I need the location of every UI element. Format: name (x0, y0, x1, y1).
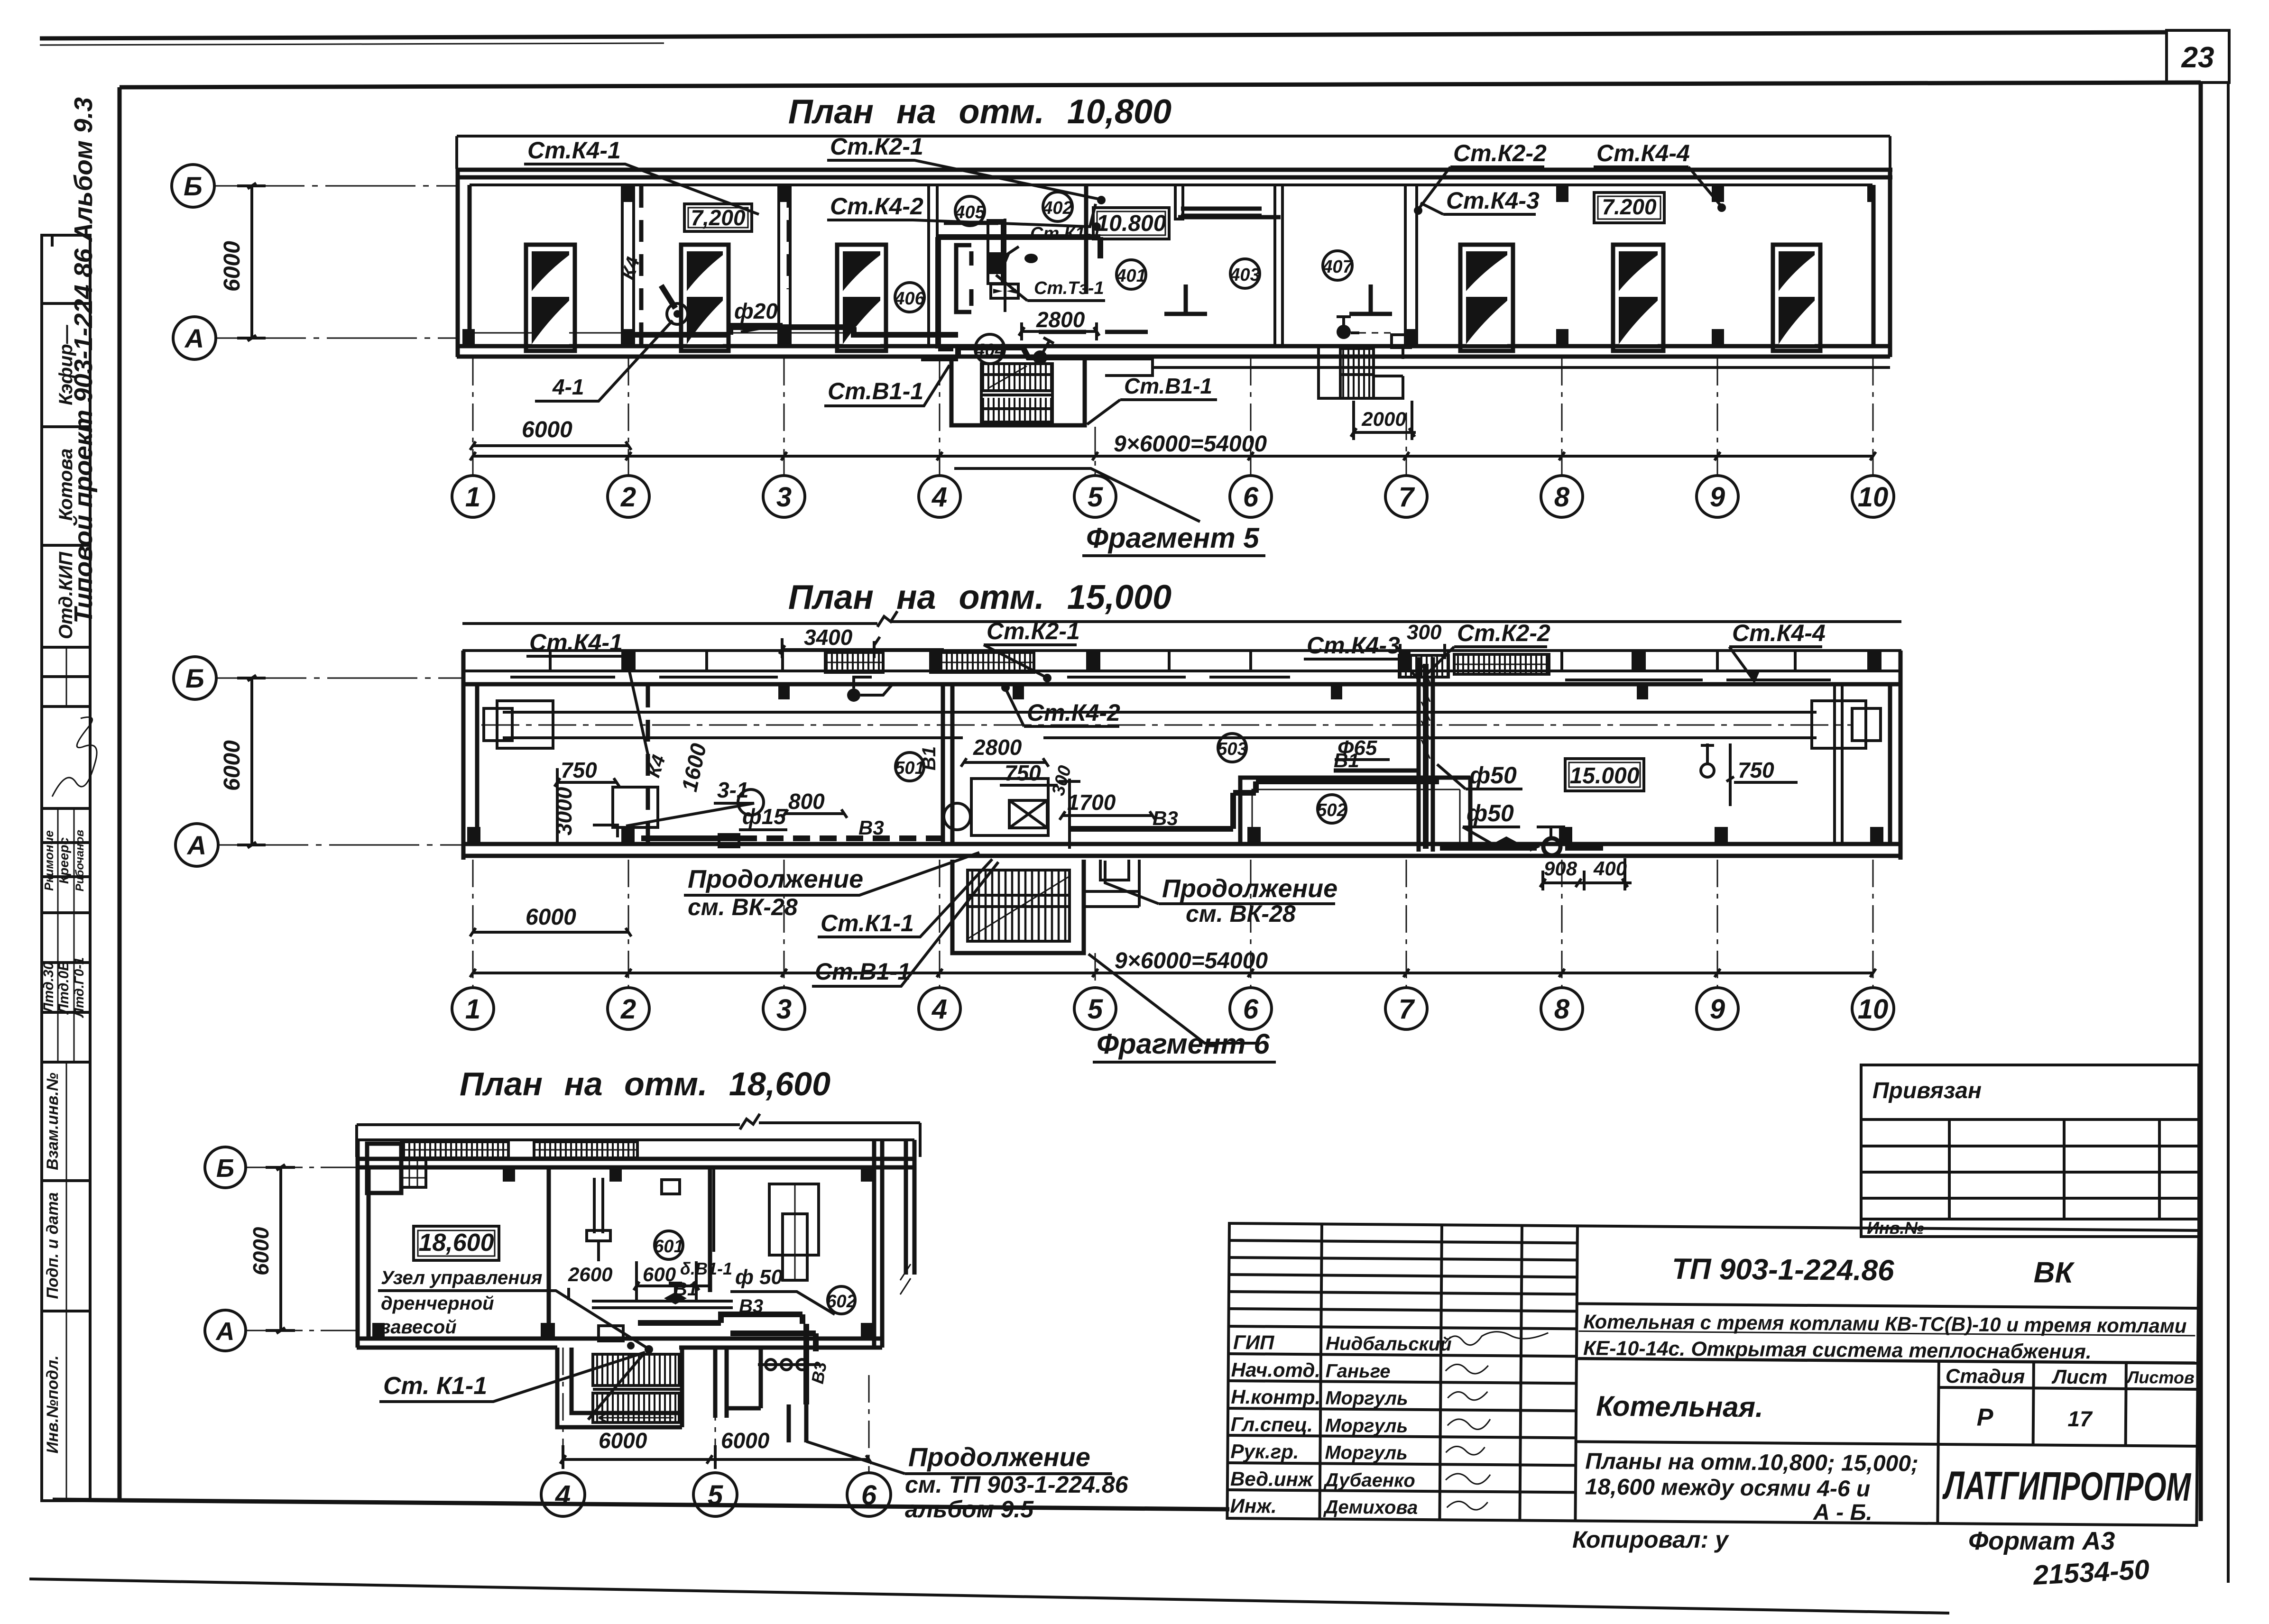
svg-text:400: 400 (1593, 857, 1627, 880)
svg-text:Продолжение: Продолжение (688, 865, 863, 893)
svg-text:ф 50: ф 50 (735, 1266, 783, 1289)
svg-text:Нидбальский: Нидбальский (1326, 1333, 1452, 1355)
svg-text:Ст.К2-1: Ст.К2-1 (830, 133, 923, 160)
sidebar sub column lines (58, 647, 74, 1501)
svg-text:401: 401 (1116, 266, 1146, 286)
svg-text:ф20: ф20 (734, 299, 778, 323)
svg-text:1700: 1700 (1067, 790, 1116, 815)
plan1 riser block (988, 252, 1002, 274)
plan2 axis B circle (174, 657, 216, 699)
title block column lines left table (1319, 1224, 1522, 1520)
svg-text:Инв.№подл.: Инв.№подл. (44, 1355, 62, 1453)
plan1 axis drop lines (473, 358, 1873, 476)
plan2 dim 1700 (1060, 790, 1155, 820)
plan1 partition between 405 and 402 (1004, 219, 1006, 312)
plan2 monorail center dash (481, 725, 1852, 726)
plan1 vent box with arrows (991, 284, 1018, 298)
svg-text:6000: 6000 (526, 905, 576, 930)
plan1 lower roof band line (1153, 366, 1890, 369)
plan1 right small stair (1319, 317, 1411, 398)
plan1 label St.V1-1 right (1087, 374, 1217, 424)
svg-text:2800: 2800 (973, 735, 1022, 760)
plan2 grate hatch 2 (931, 652, 1034, 672)
svg-text:7: 7 (1399, 482, 1415, 513)
svg-text:6: 6 (1243, 482, 1259, 513)
svg-text:Планы на отм.10,800; 15,000;: Планы на отм.10,800; 15,000; (1585, 1449, 1919, 1477)
svg-text:Узел управления: Узел управления (381, 1267, 542, 1288)
svg-text:Ганьге: Ганьге (1326, 1360, 1391, 1382)
plan1 room number 406 (894, 283, 925, 312)
plan3 stair hatch lower (593, 1389, 682, 1422)
plan1 room404 inner C shape (956, 245, 971, 312)
svg-text:Типовой проект 903-1-224 86 Ал: Типовой проект 903-1-224 86 Альбом 9.3 (69, 97, 98, 624)
svg-text:Ст.Тз-1: Ст.Тз-1 (1034, 278, 1104, 298)
svg-text:4: 4 (932, 482, 947, 513)
svg-text:Ст.К4-4: Ст.К4-4 (1732, 620, 1826, 646)
plan1 dim 2800 (1019, 307, 1099, 340)
svg-text:План на отм. 10,800: План на отм. 10,800 (788, 93, 1171, 131)
plan1 small shelf lines room 405 (944, 209, 1262, 223)
plan2 axis A line (218, 844, 463, 846)
plan2 top wall inner (462, 682, 1901, 687)
svg-text:1: 1 (465, 994, 480, 1025)
svg-text:9×6000=54000: 9×6000=54000 (1115, 948, 1268, 973)
plan2 grate hatch 4 (1454, 654, 1549, 674)
plan1 partition 403/407 (1275, 185, 1282, 346)
plan2 dim 750 left (554, 758, 619, 787)
plan1 stairwell hatch (981, 364, 1052, 422)
svg-text:600: 600 (643, 1263, 676, 1285)
plan2 label St.K4-2 (1001, 683, 1120, 726)
plan2 monorail left bracket (484, 701, 553, 748)
plan3 partition 2 (708, 1167, 712, 1292)
svg-text:δ.В1-1: δ.В1-1 (680, 1259, 732, 1278)
svg-text:4-1: 4-1 (552, 375, 584, 399)
plan2 grate hatch 3 (1399, 655, 1448, 677)
svg-text:Ст.К4-2: Ст.К4-2 (830, 193, 923, 220)
svg-text:Листов: Листов (2126, 1367, 2195, 1387)
svg-text:Б: Б (185, 663, 204, 693)
plan3 vert dim 6000 (249, 1165, 295, 1333)
plan3 level box 18,600 (414, 1226, 499, 1260)
svg-text:5: 5 (708, 1480, 723, 1511)
title block thin rows left (1229, 1240, 1577, 1311)
plan3 rod vertical (587, 1178, 610, 1261)
privyazan grid v lines (1949, 1119, 2159, 1219)
svg-text:Ст.К4-2: Ст.К4-2 (1027, 699, 1120, 726)
plan1 window 3 (837, 245, 886, 351)
plan3 equipment box top-left (367, 1144, 426, 1193)
plan2 label f50 upper (1437, 762, 1522, 789)
svg-text:Вед.инж: Вед.инж (1230, 1468, 1314, 1490)
title block bottom divider (1576, 1441, 2197, 1446)
svg-text:Н.контр.: Н.контр. (1231, 1385, 1320, 1408)
plan2 top chord line with break (462, 611, 1901, 627)
plan2 label St.K4-4 (1729, 620, 1826, 683)
plan3 dims 6000 6000 (560, 1428, 872, 1469)
svg-text:А: А (215, 1317, 235, 1346)
svg-text:В3: В3 (1153, 807, 1178, 829)
title block stadia table (1937, 1361, 2197, 1525)
plan3 label continuation (806, 1441, 1129, 1523)
plan2 label continuation left (684, 853, 979, 920)
svg-text:2: 2 (620, 994, 636, 1025)
svg-text:2800: 2800 (1036, 307, 1085, 332)
plan1 window 1 (526, 245, 575, 351)
plan1 footing T marks (1164, 284, 1392, 314)
plan3 axis A circle (205, 1310, 246, 1351)
svg-text:Ст.К1-1: Ст.К1-1 (1030, 224, 1101, 244)
plan1 dim 6000 (470, 417, 631, 450)
svg-text:Лист: Лист (2051, 1366, 2108, 1388)
plan1 partition axis3 (779, 185, 790, 346)
svg-text:10: 10 (1858, 994, 1889, 1025)
plan3 heavy pipe V3 (638, 1314, 816, 1404)
plan3 grid circle 4 (541, 1473, 585, 1516)
plan1 room number 402 (1042, 192, 1072, 221)
plan2 valve right (1701, 743, 1714, 777)
plan1 level box 7.200 right (1594, 193, 1664, 223)
plan1 level box 10.800 (1093, 208, 1169, 239)
plan3 axis B circle (205, 1147, 246, 1188)
plan1 dim 2000 (1351, 401, 1416, 440)
svg-text:406: 406 (894, 289, 925, 309)
plan2 riser shaft axis7 (1419, 657, 1433, 852)
svg-text:Ст.К2-2: Ст.К2-2 (1457, 620, 1550, 646)
plan2 label continuation right (1105, 861, 1337, 927)
svg-text:Ст.К4-1: Ст.К4-1 (529, 629, 623, 656)
plan2 dim 6000 (470, 905, 631, 936)
plan3 vent shaft (769, 1184, 819, 1280)
svg-text:6000: 6000 (599, 1428, 647, 1453)
svg-text:В3: В3 (858, 817, 884, 839)
svg-text:В1: В1 (919, 746, 940, 771)
plan1 bottom heavy pipe B1 (621, 327, 1153, 358)
plan2 riser K4 vertical fill (1421, 664, 1430, 759)
lower margin line (29, 1579, 1949, 1613)
svg-text:403: 403 (1229, 265, 1260, 285)
plan2 vert dim 6000 (220, 675, 266, 848)
plan3 pipe B1 pair (592, 1301, 733, 1308)
plan2 level box 15.000 (1565, 759, 1644, 791)
svg-text:ф50: ф50 (1467, 800, 1514, 826)
svg-text:602: 602 (826, 1292, 856, 1312)
plan3 grid circle 6 (847, 1473, 891, 1516)
plan2 heavy pipe dashed V3 (740, 835, 943, 841)
svg-text:В3: В3 (739, 1296, 763, 1317)
svg-text:10.800: 10.800 (1097, 211, 1166, 236)
title block divider signature/main (1575, 1226, 1577, 1521)
plan1 partition axis2 (622, 185, 634, 346)
left margin strip (sidebar) (41, 97, 98, 1501)
plan2 tank 3-1 (613, 787, 658, 827)
svg-text:601: 601 (654, 1237, 683, 1257)
svg-text:Котельная.: Котельная. (1596, 1390, 1763, 1423)
plan1 right wall (1873, 169, 1890, 357)
svg-text:6000: 6000 (220, 241, 245, 292)
sheet number box (2167, 30, 2229, 83)
plan2 label F65 (1335, 736, 1390, 760)
plan3 bottom wall (357, 1339, 882, 1348)
plan1 fragment5 leader (954, 468, 1200, 522)
plan1 pipe valve dot (1033, 350, 1047, 365)
plan2 monorail beam (503, 712, 1817, 738)
plan2 label St.K4-1 (526, 629, 649, 759)
plan1 dim row 9x6000 (470, 431, 1876, 460)
svg-text:ТП 903-1-224.86: ТП 903-1-224.86 (1672, 1253, 1895, 1287)
svg-text:Гл.спец.: Гл.спец. (1231, 1413, 1313, 1436)
plan2 riser K4 dashed left (646, 686, 650, 843)
svg-text:Моргуль: Моргуль (1325, 1442, 1408, 1463)
privyazan grid h lines (1861, 1119, 2199, 1219)
svg-text:Ст.К1-1: Ст.К1-1 (821, 910, 914, 936)
plan2 right wall (1890, 651, 1900, 860)
plan1 axis A circle (173, 317, 216, 359)
svg-text:Продолжение: Продолжение (1162, 874, 1337, 903)
plan2 label St.V1-1 (812, 862, 998, 986)
plan1 grid circles 1-10 (452, 476, 1894, 517)
plan1 label St.K4-4 top (1594, 140, 1726, 212)
svg-text:Формат А3: Формат А3 (1968, 1527, 2115, 1555)
plan1 window 5 (1613, 245, 1663, 351)
plan1 dashed wall mark near 401 (1039, 330, 1148, 334)
svg-text:18,600 между осями 4-6 и: 18,600 между осями 4-6 и (1585, 1475, 1871, 1502)
svg-text:Подп. и дата: Подп. и дата (44, 1192, 62, 1299)
svg-text:А: А (184, 323, 204, 353)
plan2 fragment6 text (1093, 1028, 1276, 1062)
svg-text:6000: 6000 (220, 740, 245, 791)
svg-text:2000: 2000 (1361, 408, 1406, 430)
svg-text:Рибочанов: Рибочанов (74, 830, 86, 891)
svg-text:407: 407 (1322, 257, 1353, 277)
plan2 label St.K1-1 (818, 859, 992, 937)
plan2 dim 3400 (779, 625, 944, 658)
privyazan outer box (1861, 1065, 2199, 1237)
svg-text:2: 2 (620, 482, 636, 513)
svg-text:7.200: 7.200 (1602, 194, 1657, 219)
plan1 window sill inner line (470, 332, 920, 334)
plan3 grate hatch 2 (534, 1142, 637, 1158)
plan2 left wall (463, 651, 477, 860)
svg-text:Ст.В1-1: Ст.В1-1 (815, 958, 911, 985)
plan3 room number 602 (826, 1286, 856, 1314)
plan3 right wall (874, 1140, 882, 1348)
plan3 axis B line (246, 1167, 358, 1168)
svg-text:ф50: ф50 (1469, 762, 1517, 789)
svg-text:404: 404 (974, 340, 1005, 360)
plan3 drencher unit (599, 1326, 635, 1349)
svg-text:503: 503 (1217, 739, 1247, 759)
plan2 small valve at top (847, 677, 892, 702)
plan2 center partition (943, 684, 952, 844)
plan3 partition 1 (547, 1167, 551, 1330)
plan3 small square (662, 1180, 680, 1194)
svg-text:Демихова: Демихова (1323, 1496, 1418, 1518)
svg-text:5: 5 (1088, 994, 1103, 1025)
plan1 label St.V1-1 left (824, 365, 950, 406)
plan1 axis B line (214, 185, 457, 187)
svg-text:750: 750 (561, 758, 597, 782)
plan1 porch right of stairwell (1105, 358, 1153, 376)
plan2 rod with T (1059, 779, 1080, 849)
plan1 room number 404 (974, 334, 1005, 364)
frame top edge (120, 83, 2201, 87)
plan1 top wall inner line (470, 184, 1872, 186)
plan2 roof band (462, 651, 1901, 671)
svg-text:6000: 6000 (249, 1227, 273, 1275)
svg-text:9: 9 (1710, 994, 1725, 1025)
plan3 left wall (358, 1140, 369, 1348)
svg-text:3-1: 3-1 (717, 778, 748, 802)
svg-text:6000: 6000 (721, 1428, 770, 1453)
plan2 fragment6 leader (1088, 954, 1257, 1043)
plan3 room number 601 (654, 1231, 683, 1259)
plan1 partition 402/401 (1084, 185, 1088, 294)
plan3 pilasters (372, 1167, 874, 1339)
top margin line (40, 32, 2167, 38)
plan1 label St.K2-1 (827, 133, 1106, 204)
plan1 riser outline (988, 220, 1002, 284)
plan2 porch right (1084, 860, 1139, 907)
svg-text:Продолжение: Продолжение (908, 1442, 1090, 1472)
svg-text:6: 6 (1243, 994, 1259, 1025)
svg-text:2600: 2600 (568, 1263, 612, 1285)
svg-text:6: 6 (861, 1480, 877, 1511)
plan1 window 2 (681, 245, 729, 351)
plan1 partition 403 left (1175, 185, 1183, 219)
plan1 room number 407 (1322, 251, 1353, 280)
plan1 room number 405 (954, 196, 985, 226)
svg-text:17: 17 (2067, 1406, 2093, 1431)
plan1 partition axis7 (1405, 185, 1417, 346)
svg-text:5: 5 (1088, 482, 1103, 513)
svg-text:см. ТП 903-1-224.86: см. ТП 903-1-224.86 (905, 1471, 1129, 1498)
svg-text:План на отм. 18,600: План на отм. 18,600 (460, 1065, 830, 1102)
svg-text:Лтд.Г0-1: Лтд.Г0-1 (72, 957, 86, 1018)
plan1 window 4 (1460, 245, 1513, 351)
sidebar signature scribble (52, 717, 97, 797)
svg-text:Ст.К4-3: Ст.К4-3 (1307, 632, 1400, 659)
svg-text:Ст.К4-1: Ст.К4-1 (527, 137, 621, 164)
svg-text:1: 1 (465, 482, 480, 513)
plan2 label St.K2-1 (984, 618, 1080, 682)
plan2 dim 3000 rotated (552, 782, 576, 844)
svg-text:А - Б.: А - Б. (1813, 1500, 1872, 1525)
plan2 label 3-1 (626, 778, 754, 826)
plan2 roof band joints (550, 651, 1795, 671)
title block top header line (1577, 1303, 2198, 1308)
plan1 wall segment over 403 (1178, 215, 1281, 220)
svg-text:Стадия: Стадия (1946, 1365, 2025, 1387)
svg-text:План на отм. 15,000: План на отм. 15,000 (788, 578, 1171, 616)
svg-text:15.000: 15.000 (1570, 763, 1640, 789)
svg-text:Моргуль: Моргуль (1325, 1415, 1408, 1436)
plan1 fragment5 text (1082, 522, 1265, 556)
svg-text:Лтд.0В: Лтд.0В (56, 961, 72, 1015)
svg-text:см. ВК-28: см. ВК-28 (688, 894, 798, 920)
plan2 dim 800 (782, 789, 847, 818)
svg-text:Инв.№: Инв.№ (1867, 1218, 1924, 1238)
plan2 grid circles 1-10 (452, 988, 1894, 1029)
plan3 flange circles (758, 1359, 821, 1370)
svg-text:8: 8 (1554, 482, 1570, 513)
plan2 room 502 walls (1240, 778, 1470, 844)
svg-text:Лтд.30: Лтд.30 (41, 962, 56, 1013)
plan3 top chord line with break (357, 1114, 920, 1157)
svg-text:23: 23 (2181, 41, 2214, 74)
plan1 axis A line (216, 338, 457, 339)
svg-text:Б: Б (184, 171, 203, 201)
svg-text:дренчерной: дренчерной (381, 1293, 494, 1314)
plan2 pipe pair B1 right (1334, 771, 1419, 780)
svg-text:А: А (186, 830, 206, 860)
privyazan box (1861, 1065, 2199, 1238)
plan2 heavy pipe mid (1070, 781, 1439, 829)
plan1 room number 403 (1229, 259, 1260, 288)
plan2 grate hatch 1 (825, 652, 883, 672)
plan2 label St.K2-2 (1428, 620, 1550, 673)
svg-text:Дубаенко: Дубаенко (1323, 1469, 1415, 1491)
plan3 stair arrow (599, 1412, 673, 1423)
plan3 below duct (715, 1348, 761, 1418)
plan2 bottom wall (462, 844, 1901, 856)
plan2 roof band pads (621, 651, 1882, 671)
plan3 valve on B1 (664, 1283, 687, 1304)
svg-text:Ст.К2-1: Ст.К2-1 (987, 618, 1080, 644)
svg-text:Ф65: Ф65 (1337, 736, 1377, 760)
plan3 below pipes (789, 1404, 806, 1442)
plan2 heavy riser pipe (1423, 664, 1429, 849)
plan2 stairwell below (952, 860, 1084, 953)
plan2 room number 503 (1217, 734, 1247, 762)
plan2 dim row 9x6000 (470, 948, 1876, 977)
plan1 room number 401 (1116, 260, 1146, 289)
svg-text:Копировал: у: Копировал: у (1572, 1526, 1729, 1553)
plan3 top outer line (357, 1138, 914, 1141)
plan1 axis B circle (172, 165, 214, 207)
plan3 top wall (357, 1159, 914, 1167)
svg-text:ГИП: ГИП (1233, 1331, 1274, 1354)
svg-text:завесой: завесой (381, 1317, 457, 1338)
svg-text:300: 300 (1407, 621, 1442, 644)
title block mid divider (1577, 1358, 2198, 1363)
svg-text:Ст.К2-2: Ст.К2-2 (1453, 140, 1547, 166)
plan2 dim 2800 mid (961, 734, 1049, 767)
plan1 pipe valve stem (1040, 338, 1054, 358)
plan1 window 6 (1773, 245, 1820, 351)
svg-text:Ст. К1-1: Ст. К1-1 (383, 1372, 487, 1400)
plan3 far right bay wall with break (906, 1140, 914, 1275)
svg-text:750: 750 (1005, 761, 1041, 785)
sidebar cell lines (42, 303, 90, 1311)
svg-text:Р: Р (1976, 1404, 1993, 1431)
plan1 label 4-1 (535, 321, 673, 401)
plan1 valve 4-1 circle (661, 285, 688, 324)
frame bottom edge (53, 1500, 1229, 1509)
svg-text:Б: Б (216, 1154, 234, 1183)
plan2 fixture small rects (593, 825, 739, 847)
plan3 dim 2600 (568, 1261, 636, 1300)
plan2 stairwell hatch (968, 870, 1070, 941)
plan3 break marks right bay (900, 1264, 911, 1294)
svg-text:В3: В3 (808, 1360, 830, 1385)
plan1 label St.Tz-1 (996, 275, 1105, 301)
plan2 unit near 501 (944, 779, 1048, 835)
svg-text:Фрагмент 6: Фрагмент 6 (1097, 1028, 1270, 1060)
svg-text:4: 4 (932, 994, 947, 1025)
svg-text:502: 502 (1317, 800, 1347, 820)
svg-text:3: 3 (776, 994, 792, 1025)
